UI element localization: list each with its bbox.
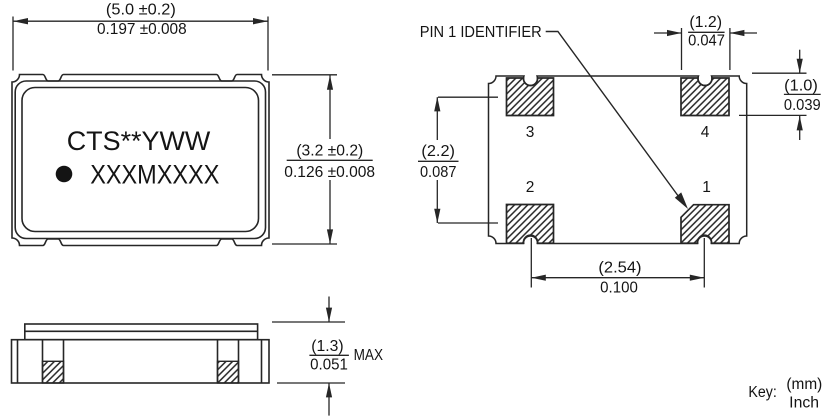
dimension 2.54 horizontal pitch <box>531 238 704 288</box>
svg-text:(mm): (mm) <box>786 376 822 393</box>
svg-text:Key:: Key: <box>748 384 776 401</box>
base body <box>12 340 270 383</box>
svg-text:Inch: Inch <box>789 394 819 411</box>
body outline with corner castellations and edge notches <box>12 75 269 246</box>
pad 1 with chamfer <box>681 205 729 244</box>
dimension 5.0 width <box>13 17 268 71</box>
castellation lines <box>17 340 19 383</box>
svg-text:(2.54): (2.54) <box>598 260 641 277</box>
svg-text:XXXMXXXX: XXXMXXXX <box>90 160 219 190</box>
svg-text:1: 1 <box>702 179 711 196</box>
svg-text:CTS**YWW: CTS**YWW <box>67 126 211 156</box>
svg-text:0.197 ±0.008: 0.197 ±0.008 <box>97 21 187 38</box>
lid outer <box>15 81 265 239</box>
pad 4 <box>681 78 729 116</box>
svg-text:0.051: 0.051 <box>310 356 348 373</box>
svg-text:0.039: 0.039 <box>784 97 821 114</box>
dimension 1.2 pad width <box>654 28 757 70</box>
svg-text:2: 2 <box>526 179 535 196</box>
dimension 3.2 height <box>272 75 337 244</box>
pad 2 <box>507 205 554 244</box>
pad 3 <box>507 78 554 116</box>
dimension 2.2 vertical pitch <box>437 97 498 223</box>
svg-text:(1.0): (1.0) <box>784 77 818 94</box>
svg-text:(1.2): (1.2) <box>689 14 722 31</box>
svg-text:0.100: 0.100 <box>600 279 638 296</box>
svg-text:MAX: MAX <box>354 347 384 364</box>
bottom view body outline <box>489 76 747 244</box>
svg-text:3: 3 <box>526 124 535 141</box>
dimension 1.3 max <box>272 297 345 416</box>
svg-text:4: 4 <box>701 124 710 141</box>
svg-text:(1.3): (1.3) <box>311 338 343 355</box>
lid inner <box>22 88 259 232</box>
side pad hatch left <box>43 361 64 383</box>
side pad hatch right <box>218 361 239 383</box>
svg-text:0.126 ±0.008: 0.126 ±0.008 <box>284 164 375 181</box>
svg-text:(3.2 ±0.2): (3.2 ±0.2) <box>296 142 363 159</box>
svg-text:0.087: 0.087 <box>420 164 457 181</box>
svg-text:(5.0 ±0.2): (5.0 ±0.2) <box>106 2 176 19</box>
lid <box>25 324 258 340</box>
marking bullet <box>56 166 73 183</box>
pad edges <box>42 340 44 383</box>
svg-text:PIN 1 IDENTIFIER: PIN 1 IDENTIFIER <box>420 24 542 41</box>
dimension 1.0 pad height <box>739 50 807 140</box>
svg-text:0.047: 0.047 <box>688 32 725 49</box>
svg-text:(2.2): (2.2) <box>421 143 455 160</box>
